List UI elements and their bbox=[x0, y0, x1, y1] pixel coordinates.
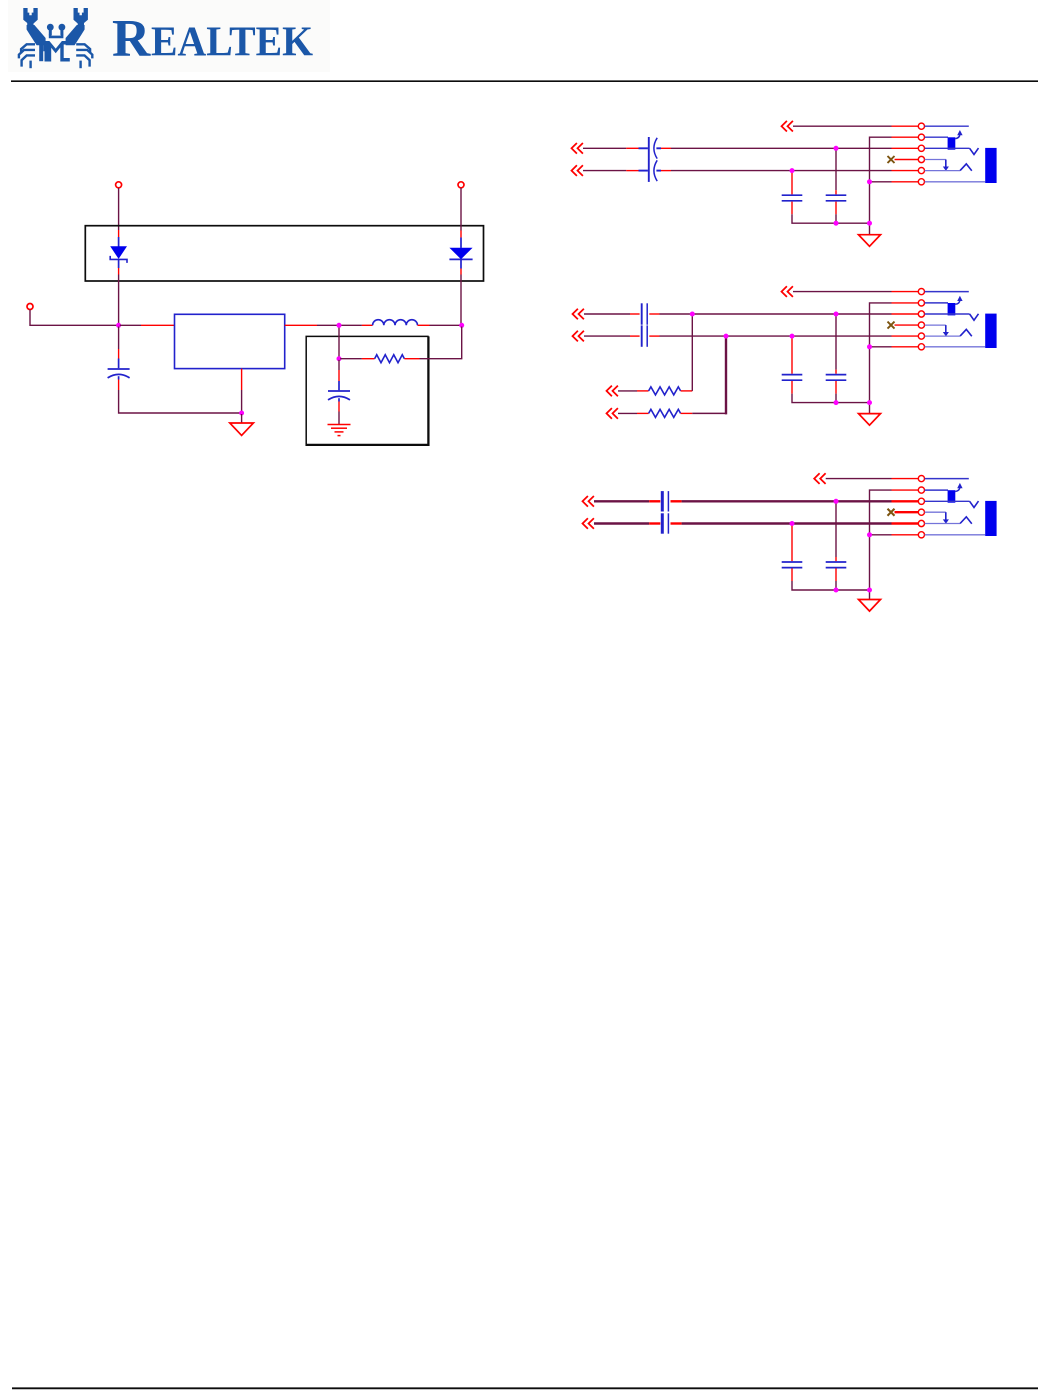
wire bbox=[630, 335, 640, 337]
wire bbox=[791, 202, 793, 215]
input port chevron J3 row1 bbox=[814, 473, 825, 484]
wire bbox=[660, 313, 892, 315]
wire bbox=[660, 335, 892, 337]
audio jack J2 pin 6 (sleeve) bbox=[918, 344, 924, 350]
capacitor (series, bottom) bbox=[662, 513, 668, 533]
audio jack J1 sleeve body bbox=[985, 148, 996, 183]
wire bbox=[835, 149, 837, 190]
audio jack J3 pin 5 (ring contact) bbox=[918, 520, 924, 526]
wire bbox=[892, 147, 919, 149]
wire bbox=[869, 403, 871, 414]
wire bbox=[835, 315, 837, 370]
wire bbox=[671, 522, 682, 524]
ground bbox=[859, 414, 881, 426]
audio jack J2 pin 4 (switch arm) bbox=[918, 322, 924, 328]
wire bbox=[791, 381, 793, 394]
wire bbox=[420, 327, 462, 359]
wire bbox=[892, 335, 919, 337]
junction bbox=[724, 334, 729, 339]
wire bbox=[649, 335, 659, 337]
junction bbox=[834, 588, 839, 593]
capacitor (shunt, left) bbox=[782, 562, 803, 568]
wire bbox=[895, 324, 919, 326]
wire bbox=[792, 394, 870, 403]
wire bbox=[460, 275, 462, 325]
wire bbox=[835, 568, 837, 581]
wire bbox=[892, 291, 919, 293]
capacitor (series, bottom) bbox=[639, 159, 662, 182]
wire bbox=[691, 314, 693, 391]
inductor L1 bbox=[340, 320, 429, 326]
no-connect X mark bbox=[888, 156, 895, 163]
input port chevron J3 bbox=[583, 518, 594, 529]
junction bbox=[867, 532, 872, 537]
wire bbox=[661, 170, 671, 172]
input port chevron J1 L-channel bbox=[572, 143, 583, 154]
junction bbox=[867, 221, 872, 226]
wire bbox=[584, 335, 630, 337]
input port chevron J2 bbox=[573, 331, 584, 342]
feedback box bbox=[306, 336, 429, 445]
wire bbox=[626, 170, 638, 172]
capacitor C2 bbox=[328, 360, 350, 412]
wire bbox=[870, 137, 892, 223]
wire bbox=[835, 370, 837, 374]
wire bbox=[626, 147, 638, 149]
wire bbox=[835, 557, 837, 561]
REALTEK wordmark bbox=[112, 10, 313, 68]
protection box bbox=[85, 226, 483, 281]
wire bbox=[430, 324, 461, 326]
wire bbox=[791, 337, 793, 374]
wire bbox=[892, 302, 919, 304]
wire bbox=[835, 190, 837, 194]
wire bbox=[285, 324, 317, 326]
junction bbox=[337, 356, 342, 361]
diode D2 bbox=[449, 231, 472, 275]
capacitor (shunt, right) bbox=[826, 195, 847, 201]
audio jack J3 pin 3 (tip contact) bbox=[918, 498, 924, 504]
resistor R1 bbox=[340, 355, 419, 363]
wire bbox=[892, 534, 919, 536]
ground bbox=[859, 600, 881, 612]
no-connect X mark bbox=[888, 322, 895, 329]
audio jack J2 pin 2 (switch contact) bbox=[918, 300, 924, 306]
no-connect X mark bbox=[888, 509, 895, 516]
zener diode D1 bbox=[110, 230, 127, 275]
audio jack J1 pin 1 bbox=[918, 123, 924, 129]
wire bbox=[661, 147, 671, 149]
junction bbox=[337, 323, 342, 328]
wire bbox=[141, 324, 175, 326]
audio jack J3 pin 2 (switch contact) bbox=[918, 487, 924, 493]
capacitor (series, top) bbox=[642, 303, 648, 324]
svg-text:R: R bbox=[112, 10, 151, 68]
wire bbox=[649, 522, 660, 524]
wire bbox=[835, 502, 837, 557]
wire bbox=[793, 291, 892, 293]
wire bbox=[835, 581, 837, 590]
junction bbox=[834, 312, 839, 317]
wire (thick) bbox=[594, 522, 649, 524]
audio jack J1 pin 6 (sleeve) bbox=[918, 179, 924, 185]
wire bbox=[892, 522, 919, 524]
wire bbox=[460, 188, 462, 231]
wire (thick) bbox=[682, 500, 892, 502]
junction bbox=[834, 400, 839, 405]
audio jack J1 pin 4 (switch arm) bbox=[918, 156, 924, 162]
wire bbox=[792, 581, 870, 590]
wire bbox=[835, 381, 837, 394]
wire bbox=[892, 313, 919, 315]
wire bbox=[338, 327, 340, 358]
capacitor (series, top) bbox=[662, 491, 668, 511]
wire bbox=[895, 159, 919, 161]
input port chevron J2 resistor row 1 bbox=[607, 386, 618, 397]
junction bbox=[459, 323, 464, 328]
wire bbox=[895, 511, 919, 513]
footer rule bbox=[12, 1387, 1038, 1389]
wire bbox=[791, 568, 793, 581]
wire (thick) bbox=[594, 500, 649, 502]
audio jack J1 pin 3 (tip contact) bbox=[918, 145, 924, 151]
earth ground bbox=[328, 425, 351, 436]
wire bbox=[583, 147, 626, 149]
wire bbox=[671, 170, 892, 172]
svg-text:EALTEK: EALTEK bbox=[151, 19, 313, 66]
wire bbox=[870, 346, 892, 348]
audio jack J2 pin 3 (tip contact) bbox=[918, 311, 924, 317]
wire bbox=[630, 313, 640, 315]
wire bbox=[835, 394, 837, 403]
junction bbox=[834, 221, 839, 226]
realtek crab logo bbox=[19, 8, 92, 68]
input port chevron J1 row1 bbox=[782, 121, 793, 132]
wire bbox=[692, 412, 726, 414]
wire bbox=[892, 136, 919, 138]
audio jack J3 pin 6 (sleeve) bbox=[918, 532, 924, 538]
wire bbox=[835, 202, 837, 215]
wire bbox=[791, 172, 793, 195]
wire bbox=[892, 170, 919, 172]
logo background bbox=[8, 0, 330, 72]
wire bbox=[118, 188, 120, 230]
input port chevron J2 resistor row 2 bbox=[607, 408, 618, 419]
wire bbox=[120, 324, 141, 326]
wire (thick) bbox=[725, 336, 727, 414]
wire bbox=[870, 303, 892, 403]
wire bbox=[649, 313, 659, 315]
wire bbox=[583, 170, 626, 172]
audio jack J1 pin 2 (switch contact) bbox=[918, 134, 924, 140]
audio jack J1 pin 5 (ring contact) bbox=[918, 168, 924, 174]
wire bbox=[119, 390, 241, 413]
junction bbox=[790, 168, 795, 173]
wire bbox=[241, 390, 243, 412]
resistor R3 bbox=[618, 409, 692, 417]
terminal P3 bbox=[27, 304, 33, 310]
wire bbox=[317, 324, 338, 326]
wire bbox=[584, 313, 630, 315]
capacitor (shunt, left) bbox=[782, 375, 803, 381]
capacitor (shunt, right) bbox=[826, 375, 847, 381]
junction bbox=[790, 334, 795, 339]
junction bbox=[867, 179, 872, 184]
audio jack J3 sleeve body bbox=[985, 501, 996, 536]
junction bbox=[867, 344, 872, 349]
junction bbox=[239, 411, 244, 416]
junction bbox=[867, 588, 872, 593]
capacitor (shunt, left) bbox=[782, 195, 803, 201]
wire bbox=[870, 534, 892, 536]
capacitor C1 bbox=[108, 327, 130, 391]
regulator U1 bbox=[175, 314, 285, 368]
wire bbox=[892, 489, 919, 491]
wire bbox=[241, 369, 243, 390]
wire bbox=[649, 500, 660, 502]
wire bbox=[869, 223, 871, 235]
wire bbox=[835, 214, 837, 223]
wire bbox=[118, 275, 120, 325]
input port chevron J2 bbox=[573, 309, 584, 320]
wire bbox=[791, 525, 793, 562]
junction bbox=[790, 521, 795, 526]
wire bbox=[869, 590, 871, 600]
wire bbox=[870, 490, 892, 590]
input port chevron J1 R-channel bbox=[572, 165, 583, 176]
capacitor (series, top) bbox=[639, 137, 662, 160]
wire bbox=[793, 125, 892, 127]
junction bbox=[690, 312, 695, 317]
junction bbox=[867, 400, 872, 405]
terminal P2 bbox=[458, 182, 464, 188]
junction bbox=[834, 499, 839, 504]
wire bbox=[241, 414, 243, 423]
junction bbox=[116, 323, 121, 328]
header rule bbox=[11, 80, 1038, 82]
junction bbox=[834, 146, 839, 151]
wire bbox=[792, 214, 870, 223]
wire bbox=[892, 478, 919, 480]
wire (thick) bbox=[682, 522, 892, 524]
capacitor (shunt, right) bbox=[826, 562, 847, 568]
wire bbox=[338, 412, 340, 425]
audio jack J2 pin 5 (ring contact) bbox=[918, 333, 924, 339]
audio jack J2 sleeve body bbox=[985, 314, 996, 348]
wire bbox=[892, 500, 919, 502]
wire bbox=[892, 181, 919, 183]
wire bbox=[892, 125, 919, 127]
wire bbox=[870, 181, 892, 183]
capacitor (series, bottom) bbox=[642, 325, 648, 346]
audio jack J3 pin 4 (switch arm) bbox=[918, 509, 924, 515]
wire bbox=[671, 147, 892, 149]
input port chevron J3 bbox=[583, 496, 594, 507]
audio jack J2 pin 1 bbox=[918, 289, 924, 295]
resistor R2 bbox=[618, 387, 692, 395]
ground bbox=[859, 235, 881, 247]
input port chevron J2 row1 bbox=[782, 286, 793, 297]
wire bbox=[30, 310, 117, 326]
wire bbox=[671, 500, 682, 502]
wire bbox=[826, 478, 892, 480]
ground bbox=[230, 423, 254, 435]
wire bbox=[892, 346, 919, 348]
terminal P1 bbox=[116, 182, 122, 188]
audio jack J3 pin 1 bbox=[918, 476, 924, 482]
